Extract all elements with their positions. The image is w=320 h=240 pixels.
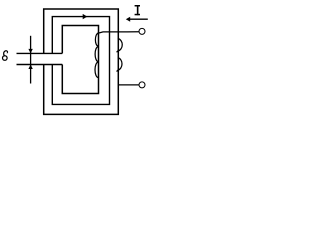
label delta (air gap length), drawn as glyph path xyxy=(3,51,8,61)
top terminal circle xyxy=(139,28,145,34)
coil left arc turn 3 xyxy=(95,62,98,77)
flux direction arrow on top flux line xyxy=(83,14,88,19)
core inner edge (rectangle, gap cut on left limb) xyxy=(62,26,98,94)
label I (current), drawn as serif glyph path xyxy=(135,5,140,15)
coil right arc 1 (behind-limb half turn) xyxy=(117,39,123,53)
flux path middle line (gap cut on left limb) xyxy=(52,17,109,105)
coil left arc turn 1 xyxy=(95,34,98,46)
dimension arrowhead pointing up at lower gap line xyxy=(28,65,32,70)
air gap lower boundary line xyxy=(17,64,63,66)
coil right arc 2 (behind-limb half turn) xyxy=(117,58,123,72)
dimension arrowhead pointing down at upper gap line xyxy=(28,49,32,54)
current direction arrow line xyxy=(129,18,148,20)
air gap upper boundary line xyxy=(17,52,63,54)
core outer edge (rectangle, gap cut on left limb) xyxy=(44,9,119,114)
bottom terminal circle xyxy=(139,82,145,88)
gap dimension line xyxy=(30,36,32,84)
top winding lead xyxy=(97,32,139,34)
bottom winding lead xyxy=(118,84,139,86)
coil left arc turn 2 xyxy=(95,47,98,62)
current arrowhead pointing left xyxy=(126,17,130,22)
